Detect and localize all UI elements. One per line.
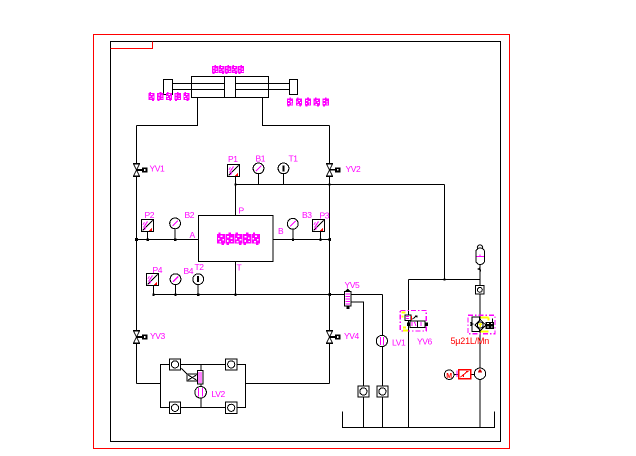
valve YV3 (133, 331, 147, 344)
gauge T1 (278, 163, 289, 174)
LV2 corner port top-right (226, 359, 237, 370)
wire B1 stem (258, 174, 260, 185)
cartridge valve YV5 (345, 289, 351, 310)
svg-text:P1: P1 (228, 154, 238, 164)
wire B4 stem (175, 285, 177, 295)
gauge B3 (287, 218, 298, 229)
svg-text:P: P (239, 206, 245, 216)
svg-text:B3: B3 (302, 210, 312, 220)
cylinder left rod end cap (164, 80, 173, 95)
svg-text:B4: B4 (184, 266, 194, 276)
LV2 relief valve (182, 369, 188, 375)
accumulator (476, 245, 485, 273)
servo valve block U1 (199, 216, 274, 262)
LV2 gauge (195, 387, 207, 399)
svg-text:LV1: LV1 (392, 338, 406, 348)
wire P4 stem (153, 286, 155, 295)
gauge B1 (253, 163, 264, 174)
svg-text:P3: P3 (320, 211, 330, 221)
wire P line vertical (235, 177, 237, 217)
svg-text:T2: T2 (195, 262, 205, 272)
svg-text:5μ21L/Mn: 5μ21L/Mn (451, 336, 490, 346)
wire T2 stem (197, 285, 199, 295)
svg-text:P4: P4 (153, 265, 163, 275)
svg-text:LV2: LV2 (212, 389, 226, 399)
wire T1 stem (283, 174, 285, 185)
svg-text:YV3: YV3 (150, 331, 166, 341)
gauge B2 (170, 218, 181, 229)
outer red drawing frame (94, 35, 510, 449)
wire YV5 side branch (351, 302, 364, 428)
svg-text:B1: B1 (256, 154, 266, 164)
svg-text:T: T (237, 263, 242, 273)
svg-text:YV5: YV5 (345, 280, 361, 290)
tank reservoir (343, 412, 495, 428)
cylinder body (192, 77, 269, 98)
valve YV2 (326, 163, 340, 176)
wire B2 stem (174, 229, 176, 240)
wire unload line (409, 279, 481, 281)
wire LV1 drain vertical (382, 295, 384, 428)
gauge P2 (142, 220, 154, 232)
svg-text:YV4: YV4 (344, 331, 360, 341)
motor M1 (444, 370, 454, 380)
wires: cylinder legs and top piping (137, 98, 495, 428)
cylinder piston (225, 77, 236, 98)
wire LV2 right connect (246, 383, 330, 385)
svg-text:A: A (190, 230, 196, 240)
LV2 corner port bottom-left (169, 402, 180, 413)
unloading valve YV6 assembly (400, 311, 428, 332)
svg-text:YV1: YV1 (150, 164, 166, 174)
wire T return line (154, 294, 383, 296)
gauge P1 (228, 165, 240, 177)
check valve left (358, 386, 369, 397)
wire cylinder left leg (137, 98, 198, 126)
wire right main vertical (329, 126, 331, 384)
check valve right (377, 386, 388, 397)
label 电液伺服阀 (217, 233, 260, 245)
wire YV6 drain vertical (408, 280, 410, 428)
wire LV2 left connect (137, 383, 161, 385)
label cylinder 电液伺服缸 (212, 65, 244, 74)
wire P gauge header line (236, 184, 445, 186)
svg-text:M: M (446, 373, 452, 380)
label velocity sensor 速度传感器 (287, 98, 329, 107)
valve LV1 (376, 335, 387, 346)
wire left main vertical (136, 126, 138, 384)
svg-text:YV6: YV6 (417, 337, 433, 347)
LV2 corner port bottom-right (226, 402, 237, 413)
svg-text:T1: T1 (289, 154, 299, 164)
svg-text:B: B (278, 226, 284, 236)
gauge B4 (170, 274, 181, 285)
filter assembly 5u21L/Mn (468, 315, 495, 334)
red title box top-left (111, 42, 153, 49)
gauge T2 (193, 274, 204, 285)
wire A line (137, 239, 199, 241)
wire B line (273, 239, 330, 241)
valve YV4 (326, 331, 340, 344)
wire P2 stem (147, 231, 149, 240)
svg-text:B2: B2 (185, 210, 195, 220)
LV2 center line (200, 365, 202, 408)
junction ticks (135, 183, 446, 296)
svg-text:P2: P2 (145, 210, 155, 220)
LV2 corner port top-left (169, 359, 180, 370)
cylinder right rod end cap (290, 80, 298, 95)
wire pump riser vertical (479, 267, 481, 428)
wire supply drop vertical (444, 185, 446, 280)
coupling (red) (456, 371, 458, 378)
wire T port vertical (235, 262, 237, 295)
wire motor pump link (454, 374, 476, 376)
cylinder rod (169, 84, 291, 90)
wire cylinder right leg (263, 98, 330, 126)
manifold block LV2 (161, 359, 246, 414)
wire B3 stem (292, 229, 294, 240)
accumulator isolator valve (476, 286, 484, 294)
pump P (474, 368, 485, 379)
valve YV1 (133, 164, 147, 177)
label displacement sensor 位移传感器 (149, 92, 190, 101)
wire P3 stem (320, 232, 322, 240)
svg-text:YV2: YV2 (346, 164, 362, 174)
gauge P3 (313, 220, 325, 232)
gauge P4 (147, 274, 159, 286)
inner black drawing frame (111, 42, 501, 442)
